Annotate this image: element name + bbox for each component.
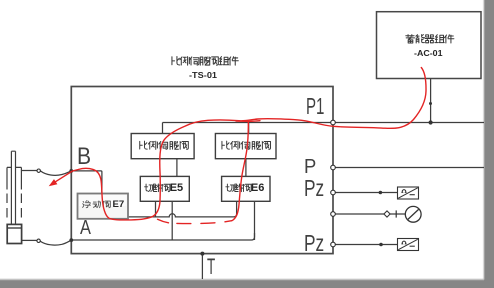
hydraulic cylinder (left) bbox=[7, 151, 22, 243]
pressure gauge bbox=[405, 206, 421, 222]
wire: gauge line bbox=[335, 213, 405, 215]
wire: bus to valve2 top pin bbox=[248, 123, 250, 134]
wire: Pz lower line bbox=[335, 244, 397, 246]
wire: T port stub below box bbox=[201, 254, 203, 279]
label B bbox=[77, 145, 91, 170]
port P bbox=[331, 165, 336, 170]
port Pz lower bbox=[331, 242, 336, 247]
wire: E6 right pin down to A bus bbox=[254, 201, 256, 240]
port P1 bbox=[331, 120, 336, 125]
label E6 bbox=[251, 183, 264, 194]
wire: accumulator drop line bbox=[430, 79, 432, 123]
label -TS-01 bbox=[189, 72, 217, 80]
node T junction bbox=[200, 252, 204, 256]
label Pz upper bbox=[304, 177, 324, 200]
label Pz lower bbox=[304, 232, 324, 255]
wire: E7 to E6 line with hop over E5 pin bbox=[128, 201, 237, 217]
node: junction dots bbox=[69, 102, 432, 256]
node A junction bbox=[69, 238, 73, 242]
cut-off valve E6 box bbox=[222, 176, 270, 201]
label E7 bbox=[113, 200, 125, 210]
red stroke: accumulator to valve1/E5/E7 to arrow bbox=[54, 68, 426, 220]
wire: cylinder B port lead bbox=[21, 170, 37, 172]
wire: A curved hose bbox=[40, 240, 71, 245]
HANZI bbox=[83, 35, 454, 208]
proportional servo valve box 2 bbox=[215, 134, 276, 159]
red stroke up through E6/valve2 bbox=[232, 122, 249, 221]
cylinder rod bbox=[11, 151, 15, 224]
wire: E5 right pin down to A bus bbox=[171, 201, 173, 240]
accumulator title bbox=[406, 35, 454, 43]
cylinder caps bbox=[7, 166, 21, 168]
title: proportional servo valve assembly bbox=[172, 57, 238, 66]
wire: E5 left pin down to E7 line bbox=[155, 201, 157, 217]
wire: B port L-wire to E7 top bbox=[71, 171, 102, 194]
label A bbox=[80, 218, 91, 239]
proportional servo valve box 1 bbox=[131, 134, 194, 159]
wire: valve2 to E6 bbox=[245, 159, 247, 177]
main valve assembly box -TS-01 bbox=[71, 87, 333, 254]
node B junction bbox=[69, 169, 73, 173]
label -AC-01 bbox=[414, 50, 443, 58]
label P bbox=[304, 157, 316, 177]
wire: cylinder A port lead bbox=[22, 239, 37, 241]
node: hose quick-coupler circles bbox=[37, 169, 40, 172]
label T bbox=[207, 256, 215, 278]
node accumulator line dot bbox=[429, 102, 432, 105]
cylinder base block bbox=[7, 224, 21, 243]
red arrowhead bbox=[49, 179, 58, 186]
wire: P1 bus inside box bbox=[163, 122, 332, 124]
node Pz upper junction bbox=[379, 191, 383, 195]
pressure transducer lower bbox=[398, 239, 419, 251]
wire: B curved hose bbox=[40, 171, 71, 175]
pressure transducer upper bbox=[398, 187, 419, 199]
node: open port circles on box edge bbox=[37, 120, 335, 247]
E5 text bbox=[145, 184, 170, 192]
node P1/accumulator junction bbox=[429, 120, 433, 124]
RED annotation bbox=[49, 68, 426, 224]
wire: A bus bbox=[71, 233, 254, 240]
cut-off valve E5 box bbox=[140, 176, 189, 201]
E7 text bbox=[83, 201, 111, 208]
E6 text bbox=[226, 184, 251, 192]
red tee along bus at valve2 bbox=[236, 120, 260, 123]
port gauge line bbox=[331, 212, 336, 217]
wire: Pz upper line bbox=[335, 192, 397, 194]
label E5 bbox=[170, 183, 183, 194]
wire: bus to valve1 top pin bbox=[162, 123, 164, 134]
floating valve E7 box (button style) bbox=[78, 194, 129, 219]
valve1 text bbox=[140, 141, 189, 149]
valve2 text bbox=[222, 141, 271, 149]
page edge soft shade bbox=[483, 0, 485, 280]
red dashed segment under E5/E6 bbox=[158, 219, 169, 223]
label P1 bbox=[306, 95, 324, 118]
wire: P line bbox=[335, 167, 484, 169]
cylinder walls dashed bbox=[7, 194, 21, 219]
test coupling diamond bbox=[384, 211, 390, 217]
accumulator box -AC-01 bbox=[377, 12, 482, 79]
wire: valve1 to E5 bbox=[176, 159, 178, 177]
port Pz upper bbox=[331, 190, 336, 195]
tick bbox=[395, 210, 397, 217]
cylinder walls solid bbox=[7, 167, 21, 189]
node Pz lower junction bbox=[379, 243, 383, 247]
wire: P1 line to accumulator / page edge bbox=[335, 122, 484, 124]
